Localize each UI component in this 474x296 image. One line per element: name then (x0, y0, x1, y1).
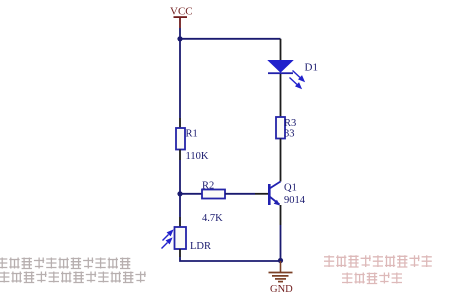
pin LDR top (179, 217, 181, 227)
svg-text:D1: D1 (305, 62, 318, 74)
resistor R2 (202, 180, 225, 224)
node C (278, 258, 283, 263)
wire R3 to Q1 collector (280, 139, 282, 182)
svg-text:R2: R2 (202, 180, 214, 191)
wire R1 to node B (179, 160, 181, 194)
svg-text:GND: GND (270, 284, 293, 295)
watermark bottom-right (324, 255, 432, 283)
svg-text:VCC: VCC (170, 6, 193, 18)
wire node A down to R1 (179, 39, 181, 118)
power symbol VCC (170, 6, 193, 29)
pin LED bottom / wire to R3 (280, 74, 282, 117)
ground (269, 261, 294, 295)
wire node B to R2 (180, 193, 202, 195)
node A (177, 36, 182, 41)
wire VCC stem to node A (179, 28, 181, 39)
wire LDR to bottom rail (180, 257, 281, 261)
wire emitter to bottom rail (280, 225, 282, 261)
pin LDR bottom (179, 249, 181, 257)
pin Q1 emitter (280, 205, 282, 225)
pin Q1 base (255, 193, 268, 195)
pin R1 bottom (179, 150, 181, 161)
LED emission arrows (290, 71, 304, 89)
node B (177, 191, 182, 196)
resistor R3 (276, 117, 296, 140)
LDR light arrows (162, 231, 173, 249)
wire R2 to Q1 base (225, 193, 255, 195)
svg-text:LDR: LDR (190, 241, 211, 252)
svg-text:R1: R1 (186, 129, 198, 140)
photoresistor LDR (175, 227, 212, 252)
svg-text:110K: 110K (186, 151, 209, 162)
svg-text:Q1: Q1 (284, 182, 297, 193)
pin R1 top (179, 118, 181, 128)
pin LED top (280, 39, 282, 60)
svg-text:33: 33 (284, 129, 295, 140)
watermark bottom-left (0, 258, 146, 283)
wire node B down to LDR (179, 194, 181, 217)
resistor R1 (176, 128, 209, 162)
svg-text:R3: R3 (284, 118, 296, 129)
svg-text:9014: 9014 (284, 195, 306, 206)
LED D1 (268, 61, 318, 75)
wire top horizontal node A to LED branch (180, 38, 281, 40)
transistor Q1 (268, 182, 306, 206)
svg-text:4.7K: 4.7K (202, 213, 223, 224)
